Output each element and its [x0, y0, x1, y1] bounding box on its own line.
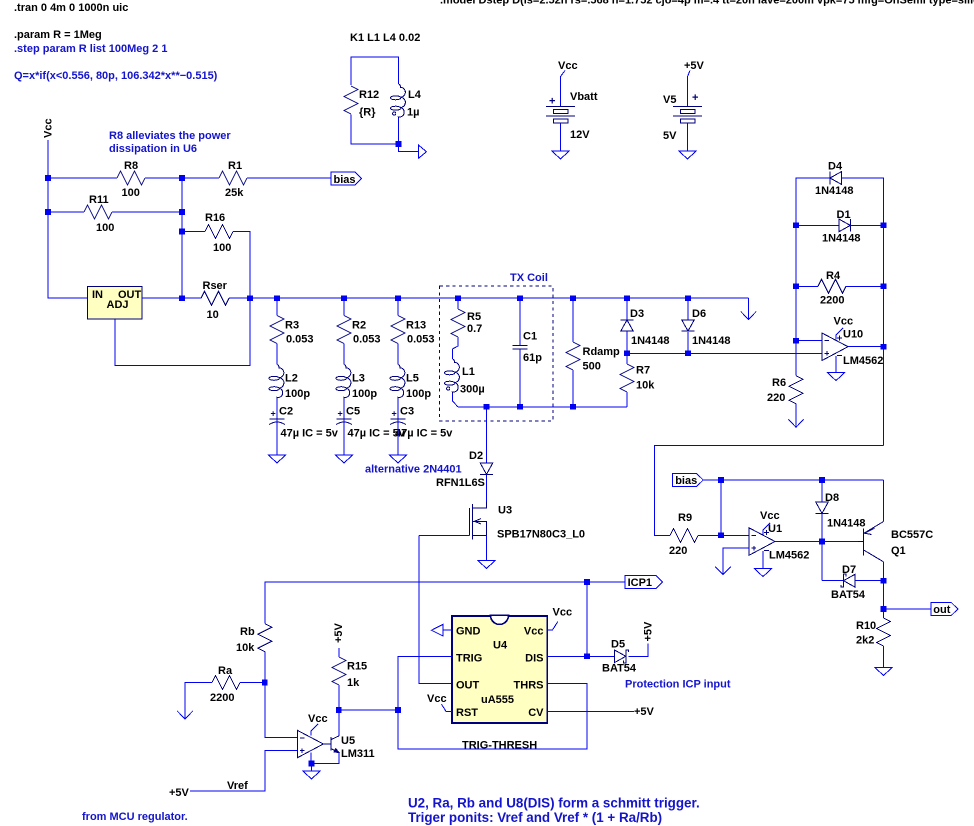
junction: [274, 295, 280, 301]
resistor R12: [344, 86, 358, 114]
diode D1 1N4148: [839, 219, 850, 232]
wire R16 right: [115, 232, 250, 366]
junction: [395, 707, 401, 713]
wire R2 top lead: [343, 298, 345, 315]
arrow left (GND): [432, 624, 444, 636]
svg-text:100: 100: [122, 187, 140, 199]
junction: [570, 404, 576, 410]
wire R2 to L3: [343, 344, 345, 365]
svg-text:Vref: Vref: [227, 780, 248, 792]
svg-text:R6: R6: [772, 377, 786, 389]
wire R11 right: [112, 211, 182, 213]
wire D2 top lead: [486, 407, 488, 463]
wire D6 top lead: [687, 298, 689, 320]
junction: [881, 578, 887, 584]
wire C5 to ground: [343, 419, 345, 455]
svg-text:RST: RST: [456, 707, 478, 719]
svg-text:D3: D3: [630, 308, 644, 320]
resistor R15: [332, 657, 346, 685]
svg-text:LM4562: LM4562: [843, 355, 883, 367]
svg-text:C3: C3: [400, 406, 414, 418]
arrow down: [788, 419, 803, 427]
wire TX bottom rail: [458, 406, 627, 408]
svg-text:25k: 25k: [225, 187, 244, 199]
svg-text:LM4562: LM4562: [769, 550, 809, 562]
svg-text:R1: R1: [228, 160, 242, 172]
svg-text:U5: U5: [341, 735, 355, 747]
wire R9 right: [698, 534, 721, 536]
svg-text:1N4148: 1N4148: [815, 185, 854, 197]
svg-text:47µ IC = 5v: 47µ IC = 5v: [395, 428, 453, 440]
ground: [679, 151, 696, 159]
wire R5 to L1: [453, 337, 459, 359]
wire ICP1 to DIS: [586, 582, 588, 656]
wire L1 to bottom rail: [453, 393, 459, 407]
wire L3 to C5: [343, 399, 345, 419]
junction: [881, 606, 887, 612]
resistor R2: [337, 316, 351, 344]
svg-text:Protection ICP input: Protection ICP input: [625, 679, 731, 691]
ground: [303, 771, 320, 779]
svg-text:K1 L1 L4 0.02: K1 L1 L4 0.02: [350, 32, 420, 44]
inductor L3: [344, 365, 351, 399]
wire D8 top lead: [821, 480, 823, 502]
svg-text:1µ: 1µ: [407, 107, 419, 119]
ground: [827, 373, 844, 381]
svg-text:1N4148: 1N4148: [692, 335, 731, 347]
capacitor C2 (polarized): [270, 418, 285, 420]
wire gate: [419, 534, 469, 536]
wire Vcc to Vbatt: [561, 71, 566, 107]
junction: [484, 404, 490, 410]
junction: [793, 338, 799, 344]
svg-text:R8: R8: [124, 160, 138, 172]
svg-text:1N4148: 1N4148: [827, 518, 866, 530]
svg-text:R16: R16: [205, 212, 225, 224]
svg-text:R7: R7: [636, 365, 650, 377]
junction: [517, 295, 523, 301]
junction: [718, 477, 724, 483]
wire R10 to ground: [883, 646, 885, 668]
svg-text:R3: R3: [285, 320, 299, 332]
junction: [395, 295, 401, 301]
wire Vref net: [190, 751, 297, 791]
svg-text:TRIG: TRIG: [456, 653, 482, 665]
diode D4 1N4148: [830, 172, 841, 185]
junction: [793, 223, 799, 229]
svg-text:+: +: [549, 96, 555, 108]
svg-text:61p: 61p: [523, 352, 542, 364]
wire D7 left lead: [822, 580, 844, 582]
svg-text:R4: R4: [826, 270, 841, 282]
diode D5 BAT54: [615, 650, 629, 663]
svg-text:Vcc: Vcc: [427, 693, 447, 705]
capacitor C1: [513, 344, 528, 346]
junction: [455, 295, 461, 301]
wire D4 row right: [841, 178, 883, 225]
svg-text:D5: D5: [611, 639, 625, 651]
junction: [309, 761, 315, 767]
label Vcc: [311, 724, 318, 736]
resistor Rdamp: [566, 342, 580, 370]
wire U5 collector output: [338, 710, 340, 736]
wire R4 row right: [846, 285, 884, 287]
arrow down: [715, 567, 730, 575]
resistor R5: [451, 309, 465, 337]
svg-text:{R}: {R}: [359, 107, 376, 119]
junction: [247, 295, 253, 301]
arrow down: [177, 711, 192, 719]
wire U1 V- to ground: [762, 551, 764, 569]
svg-text:bias: bias: [675, 475, 697, 487]
svg-text:Vbatt: Vbatt: [570, 91, 598, 103]
junction: [881, 284, 887, 290]
resistor R7: [620, 364, 634, 392]
port flag bias: [331, 172, 362, 185]
svg-text:.step param R list 100Meg 2 1: .step param R list 100Meg 2 1: [14, 43, 167, 55]
svg-text:R11: R11: [89, 194, 109, 206]
wire C1 top lead: [519, 298, 521, 345]
wire R3 to L2: [276, 344, 278, 365]
svg-text:2200: 2200: [210, 692, 234, 704]
wire R8 right: [145, 177, 182, 179]
ground: [875, 668, 892, 676]
svg-text:300µ: 300µ: [460, 384, 485, 396]
wire D8 bottom lead: [821, 514, 823, 542]
svg-text:R2: R2: [352, 320, 366, 332]
wire R6 top lead: [795, 341, 797, 376]
svg-text:500: 500: [583, 361, 601, 373]
svg-text:ICP1: ICP1: [628, 577, 652, 589]
wire R13 top lead: [397, 298, 399, 315]
wire R16 left: [182, 231, 205, 233]
svg-text:10k: 10k: [236, 642, 255, 654]
junction: [718, 533, 724, 539]
svg-text:2200: 2200: [820, 295, 844, 307]
resistor Ra: [212, 676, 240, 690]
wire ICP1 net: [265, 582, 587, 624]
wire Ra left + arrow: [185, 683, 212, 719]
svg-text:0.053: 0.053: [407, 334, 435, 346]
wire D5 to +5V: [628, 644, 648, 657]
svg-text:220: 220: [767, 392, 785, 404]
wire D1 row right: [850, 224, 883, 226]
junction: [793, 284, 799, 290]
svg-text:Vcc: Vcc: [308, 713, 328, 725]
svg-text:100: 100: [96, 222, 114, 234]
svg-text:V5: V5: [663, 94, 676, 106]
junction: [819, 477, 825, 483]
wire R15 bottom lead: [338, 685, 340, 710]
port flag bias: [673, 474, 704, 487]
inductor L1: [452, 359, 459, 393]
junction: [624, 351, 630, 357]
battery V5: [673, 106, 702, 123]
svg-text:BAT54: BAT54: [831, 589, 866, 601]
capacitor C3 (polarized): [391, 418, 406, 420]
wire D8 node down: [821, 542, 823, 581]
svg-text:L5: L5: [406, 373, 419, 385]
svg-text:U2, Ra, Rb and U8(DIS) form a: U2, Ra, Rb and U8(DIS) form a schmitt tr…: [408, 796, 700, 811]
wire U10 minus input: [796, 340, 822, 342]
wire R1 left: [182, 177, 219, 179]
junction: [685, 351, 691, 357]
svg-text:D2: D2: [469, 450, 483, 462]
wire D4 row left: [796, 178, 831, 225]
op-amp U10 LM4562: [822, 333, 848, 361]
wire Q1 collector: [883, 562, 885, 581]
svg-text:2k2: 2k2: [856, 635, 874, 647]
wire Vbatt to ground: [560, 123, 562, 151]
svg-text:.tran 0 4m 0 1000n uic: .tran 0 4m 0 1000n uic: [14, 2, 128, 14]
junction: [881, 223, 887, 229]
wire Rser left: [182, 297, 201, 299]
svg-text:10: 10: [207, 309, 219, 321]
svg-text:D1: D1: [837, 209, 851, 221]
svg-text:C1: C1: [523, 331, 537, 343]
svg-text:Ra: Ra: [218, 665, 233, 677]
svg-text:TX Coil: TX Coil: [510, 272, 548, 284]
diode D7 BAT54: [841, 574, 855, 587]
svg-text:L1: L1: [462, 366, 475, 378]
svg-text:out: out: [933, 604, 950, 616]
svg-text:0.053: 0.053: [353, 334, 381, 346]
wire L5 to C3: [397, 399, 399, 419]
wire D7 right lead: [855, 580, 884, 582]
wire D6 bottom lead: [687, 332, 689, 354]
junction: [336, 707, 342, 713]
wire D2 to drain: [486, 475, 488, 502]
wire U10 V- to ground: [835, 356, 837, 373]
resistor Rb: [258, 624, 272, 652]
svg-text:D6: D6: [692, 308, 706, 320]
wire R7 top lead: [626, 353, 628, 364]
svg-text:1N4148: 1N4148: [822, 233, 861, 245]
wire R15 top lead: [338, 648, 340, 657]
wire U5 emitter: [312, 752, 339, 763]
resistor R11: [84, 205, 112, 219]
wire R9 to U1 minus: [721, 534, 749, 536]
svg-text:Vcc: Vcc: [43, 118, 55, 138]
junction: [584, 579, 590, 585]
svg-text:BAT54: BAT54: [602, 663, 637, 675]
wire right vertical: [883, 178, 885, 446]
svg-text:R9: R9: [678, 512, 692, 524]
wire bias to R9 node: [720, 480, 722, 535]
wire R1 right: [247, 177, 331, 179]
svg-text:U10: U10: [843, 329, 863, 341]
svg-text:D4: D4: [828, 161, 843, 173]
junction: [179, 209, 185, 215]
svg-text:Vcc: Vcc: [524, 626, 544, 638]
svg-text:D7: D7: [842, 564, 856, 576]
wire R6 bottom lead: [795, 404, 797, 427]
port flag out: [931, 603, 958, 616]
wire C3 to ground: [397, 419, 399, 455]
diode D8 1N4148: [816, 502, 829, 513]
svg-text:12V: 12V: [570, 129, 590, 141]
ground: [754, 569, 771, 577]
wire C1 bottom lead: [519, 349, 521, 407]
comparator U5 LM311: [297, 730, 323, 758]
resistor R4: [818, 279, 846, 293]
regulator U6 IN/OUT/ADJ: [88, 287, 142, 319]
svg-text:+5V: +5V: [169, 787, 190, 799]
wire output node: [339, 709, 398, 711]
op-amp U1 LM4562: [749, 528, 775, 556]
resistor R13: [391, 316, 405, 344]
svg-text:L2: L2: [285, 373, 298, 385]
inductor L5: [398, 365, 405, 399]
svg-text:100p: 100p: [352, 388, 377, 400]
diode D6 1N4148: [682, 320, 695, 331]
junction: [570, 295, 576, 301]
wire C2 to ground: [276, 419, 278, 455]
wire Rb bottom: [264, 652, 266, 683]
svg-text:from MCU regulator.: from MCU regulator.: [82, 811, 188, 823]
wire R13 to L5: [397, 344, 399, 365]
svg-text:OUT: OUT: [456, 680, 480, 692]
wire bias net: [703, 479, 883, 481]
wire Rser right: [229, 297, 250, 299]
svg-text:RFN1L6S: RFN1L6S: [436, 477, 485, 489]
label Vcc: [763, 523, 770, 535]
svg-text:.model Dstep D(is=2.52n rs=.56: .model Dstep D(is=2.52n rs=.568 n=1.752 …: [440, 0, 974, 7]
svg-text:+5V: +5V: [333, 622, 345, 643]
wire K1 loop bottom: [351, 115, 399, 144]
wire rail end arrow: [688, 297, 749, 299]
arrow right: [419, 145, 427, 158]
label Vcc: [836, 328, 843, 340]
wire Ra right: [240, 682, 265, 684]
wire K1 loop: [351, 57, 399, 85]
wire U1 output: [775, 541, 858, 543]
junction: [881, 344, 887, 350]
wire OUT to gate column: [419, 535, 452, 683]
capacitor C5 (polarized): [337, 418, 352, 420]
port flag ICP1: [625, 576, 663, 589]
wire to ICP1 flag: [587, 581, 625, 583]
wire Rdamp top lead: [572, 298, 574, 342]
svg-text:0.7: 0.7: [467, 323, 482, 335]
wire U1 plus input: [723, 548, 749, 574]
wire clamp line to U10: [627, 352, 822, 354]
wire U3 source to ground: [486, 535, 488, 560]
wire to ground: [311, 764, 313, 772]
svg-text:CV: CV: [528, 707, 544, 719]
resistor R3: [270, 316, 284, 344]
wire out node: [883, 581, 885, 618]
inductor L2: [277, 365, 284, 399]
svg-text:100: 100: [213, 242, 231, 254]
wire node column: [181, 178, 183, 298]
junction: [624, 295, 630, 301]
svg-text:R8 alleviates the power: R8 alleviates the power: [109, 130, 231, 142]
svg-text:DIS: DIS: [525, 653, 543, 665]
wire feedback to R9: [655, 446, 884, 536]
wire D3 top lead: [626, 298, 628, 319]
svg-text:R13: R13: [406, 320, 426, 332]
svg-text:1N4148: 1N4148: [631, 335, 670, 347]
svg-text:Vcc: Vcc: [760, 510, 780, 522]
svg-text:C5: C5: [346, 406, 360, 418]
svg-text:U1: U1: [768, 523, 782, 535]
resistor R16: [205, 225, 233, 239]
wire R11 left: [48, 211, 84, 213]
ground: [268, 455, 285, 463]
svg-text:SPB17N80C3_L0: SPB17N80C3_L0: [497, 529, 585, 541]
svg-text:uA555: uA555: [481, 694, 514, 706]
svg-text:LM311: LM311: [341, 748, 375, 760]
svg-text:+5V: +5V: [634, 706, 655, 718]
transistor Q1 BC557C: [858, 522, 884, 562]
svg-text:Vcc: Vcc: [558, 60, 578, 72]
resistor Rser: [201, 291, 229, 305]
svg-text:10k: 10k: [636, 380, 655, 392]
wire R4 row left: [796, 285, 818, 287]
junction: [396, 141, 402, 147]
svg-text:L3: L3: [352, 373, 365, 385]
svg-text:47µ IC = 5v: 47µ IC = 5v: [281, 428, 339, 440]
ground: [389, 455, 406, 463]
junction: [517, 404, 523, 410]
svg-text:Rb: Rb: [240, 626, 255, 638]
svg-text:R12: R12: [359, 89, 379, 101]
resistor R8: [117, 171, 145, 185]
svg-text:R15: R15: [347, 661, 367, 673]
svg-text:5V: 5V: [663, 130, 677, 142]
svg-text:0.053: 0.053: [286, 334, 314, 346]
junction: [819, 539, 825, 545]
mosfet U3 SPB17N80C3_L0: [469, 502, 486, 540]
svg-text:Vcc: Vcc: [553, 607, 573, 619]
svg-text:Triger ponits: Vref and Vref *: Triger ponits: Vref and Vref * (1 + Ra/R…: [408, 810, 662, 825]
svg-text:bias: bias: [334, 174, 356, 186]
svg-text:+5V: +5V: [684, 60, 705, 72]
wire to U5 minus: [265, 683, 297, 738]
junction: [179, 295, 185, 301]
label Vcc (RST): [442, 704, 453, 711]
svg-text:Rdamp: Rdamp: [583, 346, 621, 358]
svg-text:1k: 1k: [347, 677, 360, 689]
wire L2 to C2: [276, 399, 278, 419]
wire R3 top lead: [276, 298, 278, 315]
svg-text:D8: D8: [825, 492, 839, 504]
svg-text:220: 220: [669, 545, 687, 557]
wire R8 left: [48, 177, 117, 179]
svg-text:BC557C: BC557C: [891, 529, 933, 541]
resistor R1: [219, 171, 247, 185]
inductor L4: [398, 84, 405, 118]
wire R5 top lead: [457, 298, 459, 309]
junction: [584, 654, 590, 660]
wire D3 bottom lead: [626, 331, 628, 353]
battery Vbatt: [546, 106, 575, 123]
wire Vcc rail: [48, 140, 88, 298]
junction: [45, 175, 51, 181]
wire D1 row left: [796, 224, 839, 226]
svg-text:TRIG-THRESH: TRIG-THRESH: [462, 740, 537, 752]
ground: [478, 561, 495, 569]
svg-text:U3: U3: [498, 505, 512, 517]
label Vcc (555): [547, 622, 558, 631]
svg-text:L4: L4: [408, 89, 422, 101]
resistor R9: [670, 528, 698, 542]
wire bias to Q1 emitter: [883, 480, 885, 522]
svg-text:100p: 100p: [285, 388, 310, 400]
svg-text:Vcc: Vcc: [834, 316, 854, 328]
svg-text:R5: R5: [467, 311, 481, 323]
